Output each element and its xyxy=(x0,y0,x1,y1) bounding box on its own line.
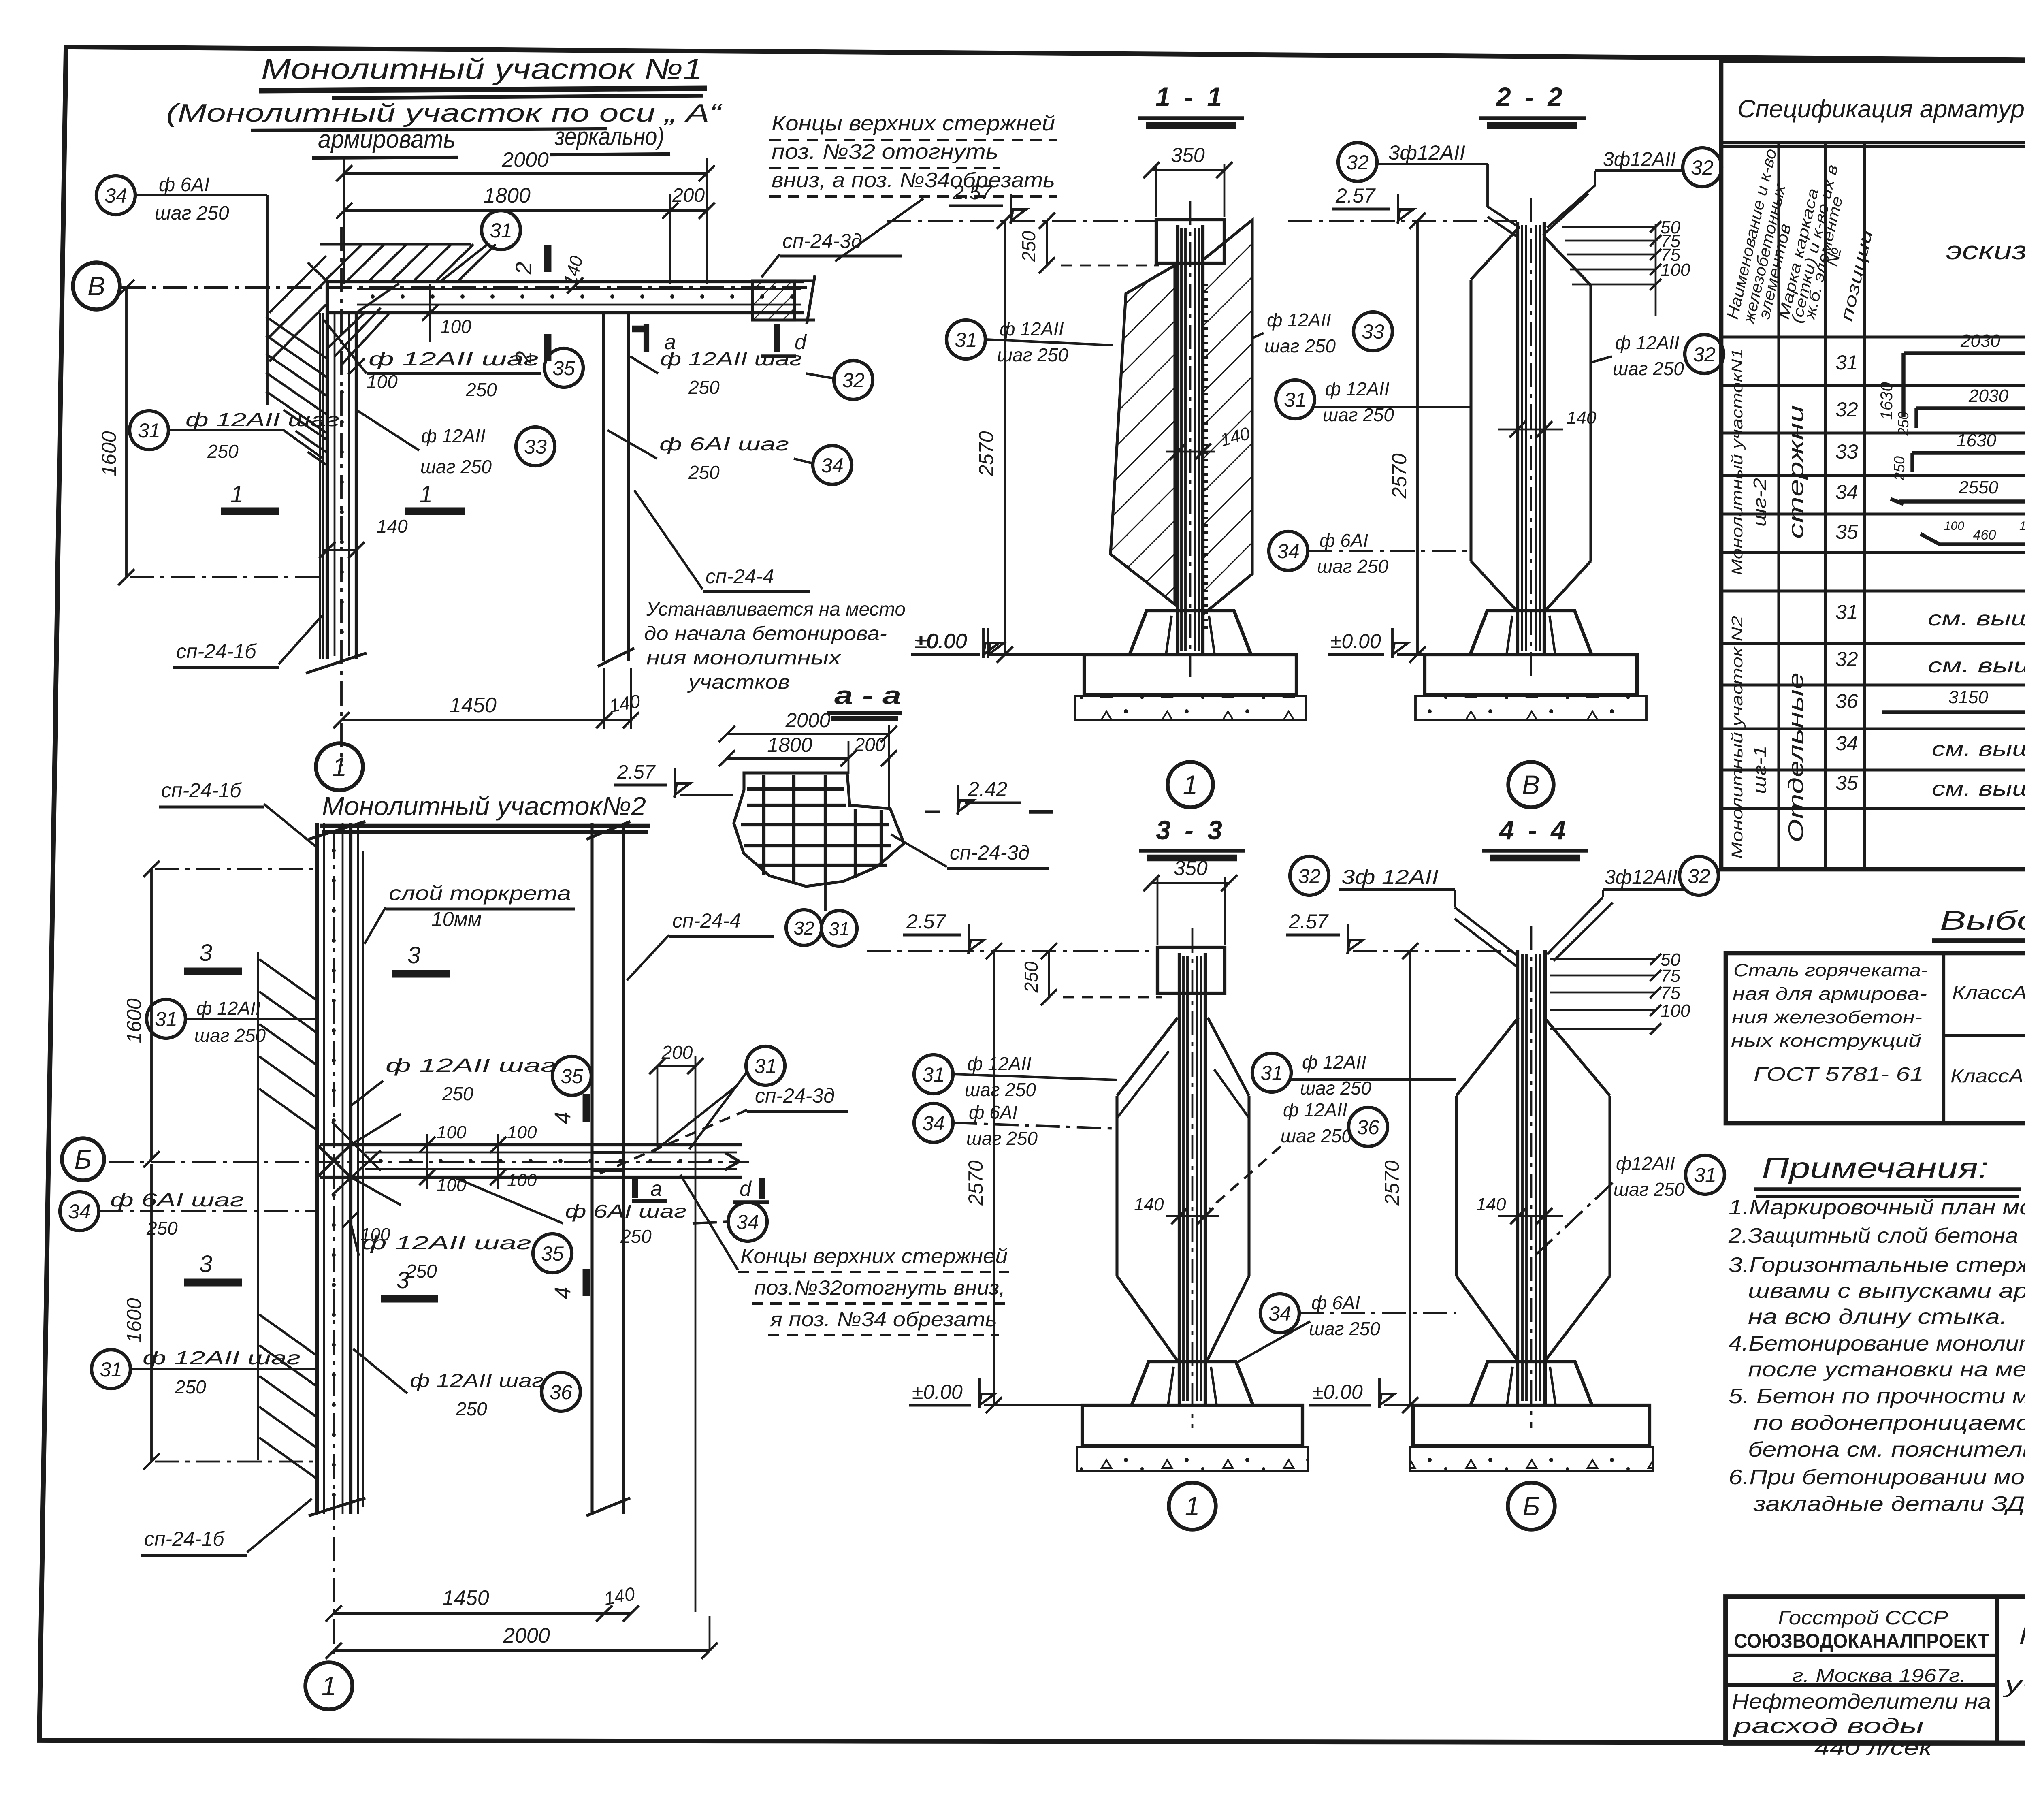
svg-text:1: 1 xyxy=(230,481,243,508)
svg-text:100: 100 xyxy=(2019,519,2025,533)
svg-text:100: 100 xyxy=(360,1225,390,1244)
foundation block xyxy=(1132,1362,1253,1405)
wall column in section xyxy=(1516,950,1519,1404)
svg-text:31: 31 xyxy=(155,1008,177,1031)
dim 140 sec3-3 xyxy=(1166,1215,1219,1217)
svg-text:350: 350 xyxy=(1174,857,1208,879)
svg-text:34: 34 xyxy=(104,184,127,207)
svg-text:см. выше: см. выше xyxy=(1932,777,2025,800)
svg-text:2000: 2000 xyxy=(503,1624,550,1647)
foundation block xyxy=(1130,611,1251,655)
end hatched block sp-24-3d plan1 xyxy=(752,281,795,320)
svg-text:1600: 1600 xyxy=(98,431,120,476)
svg-text:шаг 250: шаг 250 xyxy=(1613,358,1684,379)
dim 2000 plan1 xyxy=(344,172,707,175)
svg-text:шаг 250: шаг 250 xyxy=(966,1128,1038,1149)
svg-text:1: 1 xyxy=(332,752,347,782)
svg-text:4: 4 xyxy=(550,1287,575,1299)
svg-text:до начала бетонирова-: до начала бетонирова- xyxy=(644,623,887,644)
svg-text:140: 140 xyxy=(1476,1195,1506,1214)
callout 31 sec3-3 left xyxy=(914,1055,953,1094)
svg-text:2 - 2: 2 - 2 xyxy=(1495,82,1566,112)
svg-text:поз.№32отогнуть вниз,: поз.№32отогнуть вниз, xyxy=(754,1276,1005,1299)
svg-text:2.42: 2.42 xyxy=(968,778,1008,800)
svg-text:Госстрой СССР: Госстрой СССР xyxy=(1778,1607,1948,1629)
svg-text:ф 12АII: ф 12АII xyxy=(967,1053,1032,1074)
svg-text:2.Защитный слой бетона для арм: 2.Защитный слой бетона для арматуры прин… xyxy=(1728,1224,2025,1248)
svg-text:32: 32 xyxy=(842,369,865,392)
svg-text:ф 12АII шаг: ф 12АII шаг xyxy=(660,348,802,369)
svg-text:Б: Б xyxy=(75,1144,92,1174)
svg-text:эскиз: эскиз xyxy=(1946,237,2025,265)
dim 140 sec2-2 xyxy=(1498,429,1563,431)
svg-text:шаг 250: шаг 250 xyxy=(1264,335,1336,356)
svg-text:1.Маркировочный план монолит: 1.Маркировочный план монолитных участков… xyxy=(1729,1196,2025,1219)
svg-text:±0.00: ±0.00 xyxy=(912,1380,963,1403)
svg-text:4.Бетонирование монолитных уч: 4.Бетонирование монолитных участков стен… xyxy=(1729,1332,2025,1355)
svg-text:Монолитный участок№2: Монолитный участок№2 xyxy=(322,792,646,821)
callout 34 sec3-3 left xyxy=(914,1103,953,1142)
callout 35 plan2 upper xyxy=(552,1056,591,1095)
plan2 hatched panels xyxy=(259,959,317,1001)
callout 34 plan1 right xyxy=(813,446,852,484)
svg-text:ф 12АII: ф 12АII xyxy=(421,425,486,446)
svg-text:см. выше: см. выше xyxy=(1932,738,2025,760)
svg-text:±0.00: ±0.00 xyxy=(1330,630,1381,653)
svg-text:35: 35 xyxy=(561,1065,583,1088)
svg-text:по водонепроницаемости В-6.: по водонепроницаемости В-6. Указания по … xyxy=(1754,1411,2025,1435)
svg-text:31: 31 xyxy=(955,329,977,351)
svg-text:31: 31 xyxy=(922,1063,945,1086)
shotcrete dotted liner sec1-1 xyxy=(1204,284,1208,632)
svg-text:31: 31 xyxy=(490,219,512,242)
dim 2570 sec1-1 xyxy=(1004,221,1006,655)
svg-text:140: 140 xyxy=(377,516,408,537)
svg-text:ГОСТ 5781- 61: ГОСТ 5781- 61 xyxy=(1754,1064,1924,1085)
svg-text:ф 12АII шаг: ф 12АII шаг xyxy=(369,348,539,369)
svg-text:сп-24-4: сп-24-4 xyxy=(706,565,774,588)
svg-text:250: 250 xyxy=(688,462,720,483)
concrete prep strip xyxy=(1077,1447,1308,1471)
svg-text:ф 12АII: ф 12АII xyxy=(1615,332,1680,353)
dims 1600 plan2 xyxy=(150,869,153,1159)
svg-text:250: 250 xyxy=(175,1376,206,1398)
svg-text:1450: 1450 xyxy=(442,1586,489,1610)
callout 36 plan2 xyxy=(541,1372,580,1411)
callout 34 plan1 top-left xyxy=(96,176,135,215)
svg-text:ф 12АII: ф 12АII xyxy=(1283,1099,1347,1120)
svg-text:100: 100 xyxy=(437,1175,467,1195)
svg-text:ф 12АII: ф 12АII xyxy=(1267,309,1331,331)
svg-text:поз. №32 отогнуть: поз. №32 отогнуть xyxy=(772,140,998,164)
svg-text:1800: 1800 xyxy=(767,734,812,756)
callout 31 plan2 left lower xyxy=(92,1350,130,1389)
hatched precast panel sp-24-1b plan1 (left of wall) xyxy=(266,317,326,358)
svg-text:35: 35 xyxy=(541,1242,564,1265)
svg-text:33: 33 xyxy=(524,435,547,458)
svg-text:2: 2 xyxy=(511,262,536,275)
svg-text:31: 31 xyxy=(754,1055,777,1077)
wall column in section xyxy=(1178,953,1181,1404)
svg-text:34: 34 xyxy=(1835,481,1858,504)
svg-text:шг-2: шг-2 xyxy=(1750,478,1770,527)
svg-text:сп-24-3д: сп-24-3д xyxy=(755,1084,835,1107)
callout 31 plan1 left xyxy=(130,411,168,450)
axis circle B(Б) sec4-4 xyxy=(1508,1483,1555,1530)
dim 250 sec1-1 xyxy=(1046,221,1048,265)
panel hexagon sec3-3 xyxy=(1115,1096,1118,1276)
svg-text:100: 100 xyxy=(440,316,471,337)
concrete prep strip xyxy=(1415,696,1646,720)
svg-text:33: 33 xyxy=(1362,320,1384,343)
precast panel sp-24-4 strip plan1 xyxy=(602,313,605,661)
dim 250 sec3-3 xyxy=(1048,951,1050,997)
callout 31 plan2 right xyxy=(746,1046,785,1085)
svg-text:34: 34 xyxy=(68,1200,91,1223)
callout 32 plan1 right xyxy=(834,361,873,399)
svg-text:Монолитные: Монолитные xyxy=(2019,1623,2025,1649)
column centerline xyxy=(1189,201,1192,677)
svg-text:250: 250 xyxy=(1021,961,1042,993)
svg-text:1600: 1600 xyxy=(123,1298,145,1343)
svg-text:2.57: 2.57 xyxy=(906,910,947,933)
callout 31 sec4-4 right xyxy=(1686,1155,1724,1194)
right hatched panel sec1-1 xyxy=(1203,220,1252,614)
svg-text:100: 100 xyxy=(507,1170,537,1190)
svg-text:36: 36 xyxy=(1835,690,1858,713)
svg-text:сп-24-4: сп-24-4 xyxy=(672,909,741,932)
spacing dims 50/75/75/100 sec2-2 xyxy=(1655,224,1657,316)
table row lines xyxy=(1721,335,2025,338)
svg-text:36: 36 xyxy=(550,1381,572,1404)
svg-text:а: а xyxy=(650,1177,662,1201)
svg-text:шаг 250: шаг 250 xyxy=(194,1025,266,1046)
svg-text:шг-1: шг-1 xyxy=(1750,745,1770,794)
svg-text:СОЮЗВОДОКАНАЛПРОЕКТ: СОЮЗВОДОКАНАЛПРОЕКТ xyxy=(1734,1630,1989,1652)
svg-text:1800: 1800 xyxy=(484,184,531,207)
svg-text:140: 140 xyxy=(1134,1195,1164,1214)
svg-text:1600: 1600 xyxy=(123,998,145,1043)
svg-text:±0.00: ±0.00 xyxy=(916,630,967,653)
svg-text:3ф12АII: 3ф12АII xyxy=(1388,141,1465,164)
callout 31 plan2 topleft xyxy=(147,999,185,1038)
svg-text:ф 12АII: ф 12АII xyxy=(1302,1052,1366,1073)
dim 1600 plan1 xyxy=(125,288,128,577)
svg-text:1: 1 xyxy=(420,481,433,508)
svg-text:34: 34 xyxy=(1268,1302,1291,1325)
plan1 vertical wall bottom break xyxy=(306,653,367,673)
svg-text:ф 12АII: ф 12АII xyxy=(1325,378,1390,399)
svg-text:закладные детали ЗД-1 по ли: закладные детали ЗД-1 по листу АС-5. xyxy=(1753,1492,2025,1516)
svg-text:Выборка арматуры: Выборка арматуры xyxy=(1940,905,2025,935)
bent bars funnel sec4-4 xyxy=(1454,890,1456,907)
svg-text:сп-24-3д: сп-24-3д xyxy=(950,841,1030,864)
svg-text:250: 250 xyxy=(465,379,497,400)
panel hexagon sec2-2 xyxy=(1469,280,1472,561)
dim 350 sec1-1 xyxy=(1151,169,1224,171)
svg-text:31: 31 xyxy=(1284,388,1307,411)
svg-text:Концы верхних стержней: Концы верхних стержней xyxy=(740,1245,1008,1267)
table column lines xyxy=(1777,143,1780,869)
axis circle 1 sec3-3 xyxy=(1169,1483,1216,1530)
column rebar lines xyxy=(1180,228,1183,651)
svg-text:ф 6АI: ф 6АI xyxy=(1311,1292,1360,1313)
plan view 1: corner wall xyxy=(327,280,804,283)
svg-text:200: 200 xyxy=(854,734,886,755)
spacing dims sec4-4 xyxy=(1550,958,1656,960)
dim 140 sec1-1 xyxy=(1166,451,1215,453)
panel hexagon sec4-4 xyxy=(1455,1096,1458,1276)
dim 140 sec4-4 xyxy=(1498,1215,1563,1217)
svg-text:шаг 250: шаг 250 xyxy=(155,203,229,224)
svg-text:см. выше: см. выше xyxy=(1928,607,2025,630)
svg-text:250: 250 xyxy=(688,377,720,398)
dim 1450/140 plan1 bottom xyxy=(341,719,604,721)
svg-text:Монолитный участок №1: Монолитный участок №1 xyxy=(261,53,703,85)
svg-text:В: В xyxy=(1522,770,1540,800)
callout 31 sec1-1 left xyxy=(946,320,985,359)
callouts 32 31 under a-a xyxy=(786,910,822,945)
svg-text:100: 100 xyxy=(507,1122,537,1142)
svg-text:шаг 250: шаг 250 xyxy=(1614,1179,1685,1200)
svg-text:Спецификация арматуры н'а о: Спецификация арматуры н'а один элемент xyxy=(1737,95,2025,123)
svg-text:3ф 12АII: 3ф 12АII xyxy=(1341,866,1439,888)
callout 34 plan2 right xyxy=(728,1202,767,1241)
svg-text:32: 32 xyxy=(1835,648,1858,670)
svg-text:сп-24-1б: сп-24-1б xyxy=(144,1528,225,1550)
dim 2570 sec3-3 xyxy=(993,951,995,1405)
svg-text:31: 31 xyxy=(829,918,849,939)
wall column in section xyxy=(1516,222,1519,653)
hatched panel strip along top wall plan1 xyxy=(320,243,471,245)
column rebar lines xyxy=(1521,954,1524,1401)
svg-text:ф 12АII шаг: ф 12АII шаг xyxy=(386,1055,556,1076)
svg-text:250: 250 xyxy=(1018,230,1039,262)
svg-text:участков: участков xyxy=(687,672,790,693)
callout 35 plan2 lower xyxy=(533,1234,572,1273)
svg-text:32: 32 xyxy=(1688,865,1710,888)
wall corner bend bars xyxy=(308,262,327,282)
svg-text:1630: 1630 xyxy=(1957,431,1996,450)
plan2 wall break marks xyxy=(309,821,365,839)
svg-text:34: 34 xyxy=(821,454,844,477)
svg-text:2570: 2570 xyxy=(1381,1160,1403,1206)
section a d marks plan2 xyxy=(632,1178,638,1198)
svg-text:100: 100 xyxy=(1660,1001,1690,1021)
svg-text:расход воды: расход воды xyxy=(1732,1714,1924,1738)
svg-text:Концы верхних стержней: Концы верхних стержней xyxy=(772,112,1055,135)
wall column in section xyxy=(1176,225,1179,653)
svg-text:шаг 250: шаг 250 xyxy=(420,456,492,477)
cap block sec1-1 xyxy=(1156,220,1224,263)
dim 2570 sec2-2 xyxy=(1416,221,1419,655)
callout 34 mid (lower) xyxy=(1260,1294,1299,1333)
svg-text:ф 6АI шаг: ф 6АI шаг xyxy=(659,433,789,454)
svg-text:460: 460 xyxy=(1973,527,1996,543)
callout 33 sec1-1 right xyxy=(1354,312,1392,351)
svg-text:Монолитный участок N2: Монолитный участок N2 xyxy=(1729,616,1746,859)
svg-text:34: 34 xyxy=(1277,540,1300,563)
svg-text:3 - 3: 3 - 3 xyxy=(1156,815,1226,845)
axis B line and circle xyxy=(122,286,814,289)
callout 32 sec2-2 right xyxy=(1685,335,1724,373)
column centerline xyxy=(1192,928,1194,1428)
plan2 sp-24-4 right strip with joint xyxy=(590,823,593,1514)
svg-text:1: 1 xyxy=(1185,1491,1200,1521)
dim 200 plan2 xyxy=(657,1065,695,1067)
axis 1 line and circle (plan1) xyxy=(340,227,343,766)
axis 1 line circle plan2 xyxy=(333,834,335,1663)
column centerline xyxy=(1530,926,1533,1428)
svg-text:75: 75 xyxy=(1660,983,1680,1003)
svg-text:3ф12АII: 3ф12АII xyxy=(1605,866,1678,888)
svg-text:ф 6АI: ф 6АI xyxy=(159,174,209,196)
table outer and title row xyxy=(1721,61,2025,869)
svg-text:ф 6АI: ф 6АI xyxy=(969,1102,1017,1123)
svg-text:31: 31 xyxy=(1835,351,1858,374)
left hatched panel sec1-1 xyxy=(1111,265,1175,604)
svg-text:100: 100 xyxy=(437,1122,467,1142)
svg-text:32: 32 xyxy=(1835,398,1858,421)
column centerline xyxy=(1530,198,1532,677)
svg-text:140: 140 xyxy=(1567,408,1597,428)
svg-text:ф 12АII шаг: ф 12АII шаг xyxy=(410,1370,544,1391)
axis circle B sec2-2 xyxy=(1508,762,1554,807)
svg-text:32: 32 xyxy=(1346,151,1369,174)
column rebar lines xyxy=(1182,956,1185,1401)
svg-text:100: 100 xyxy=(1660,260,1690,280)
svg-text:участки стен: участки стен xyxy=(2002,1671,2025,1698)
svg-text:ф 6АI: ф 6АI xyxy=(1319,530,1368,551)
callout 34 plan2 left xyxy=(60,1192,99,1231)
svg-text:2570: 2570 xyxy=(1388,453,1411,499)
svg-text:4: 4 xyxy=(550,1112,575,1124)
svg-text:3150: 3150 xyxy=(1948,687,1988,707)
svg-text:бетона см. пояснительную за: бетона см. пояснительную записку. xyxy=(1748,1438,2025,1462)
svg-text:34: 34 xyxy=(922,1112,945,1135)
svg-text:слой торкрета: слой торкрета xyxy=(389,882,571,905)
mesh sheet blob a-a xyxy=(734,773,904,886)
plan2 wall right end arrow xyxy=(725,1153,740,1161)
svg-text:ф 12АII: ф 12АII xyxy=(196,998,261,1019)
svg-text:шаг 250: шаг 250 xyxy=(1317,556,1388,577)
svg-text:Нефтеотделители на: Нефтеотделители на xyxy=(1732,1690,1991,1713)
svg-text:d: d xyxy=(740,1177,752,1201)
svg-text:200: 200 xyxy=(672,185,705,206)
cap block sec3-3 xyxy=(1157,947,1225,993)
svg-text:ная для армирова-: ная для армирова- xyxy=(1733,984,1927,1004)
svg-text:Сталь горячеката-: Сталь горячеката- xyxy=(1733,960,1928,980)
svg-text:10мм: 10мм xyxy=(431,908,482,930)
svg-text:2.57: 2.57 xyxy=(1335,184,1376,207)
svg-text:я поз. №34 обрезать: я поз. №34 обрезать xyxy=(769,1308,997,1331)
svg-text:6.При бетонировании монолитны: 6.При бетонировании монолитных участков … xyxy=(1729,1466,2025,1489)
callout 36 mid xyxy=(1349,1107,1388,1146)
svg-text:В: В xyxy=(87,271,105,301)
svg-text:34: 34 xyxy=(736,1211,759,1233)
svg-text:2550: 2550 xyxy=(1958,478,1998,497)
foundation block xyxy=(1470,611,1592,655)
svg-text:а - а: а - а xyxy=(834,682,901,710)
svg-text:3.Горизонтальные стержни сва: 3.Горизонтальные стержни сварить односто… xyxy=(1729,1253,2025,1277)
svg-text:ния железобетон-: ния железобетон- xyxy=(1732,1007,1922,1027)
callout 31 mid (to 4-4) xyxy=(1252,1053,1291,1092)
svg-text:сп-24-3д: сп-24-3д xyxy=(782,230,862,252)
svg-text:4 - 4: 4 - 4 xyxy=(1498,815,1569,845)
plan2 horizontal wall xyxy=(320,1143,742,1146)
svg-text:армировать: армировать xyxy=(318,126,456,154)
svg-text:200: 200 xyxy=(661,1042,693,1063)
svg-text:г. Москва 1967г.: г. Москва 1967г. xyxy=(1792,1665,1966,1686)
svg-text:1 - 1: 1 - 1 xyxy=(1155,82,1225,112)
column rebar lines xyxy=(1521,225,1523,651)
svg-text:34: 34 xyxy=(1835,732,1858,755)
svg-text:1450: 1450 xyxy=(450,693,497,717)
svg-text:шаг 250: шаг 250 xyxy=(997,344,1068,365)
callout 34 mid (to 2-2) xyxy=(1269,531,1308,570)
dim 1800/200 a-a xyxy=(727,757,848,760)
section a marks plan1 xyxy=(644,324,649,352)
svg-text:250: 250 xyxy=(620,1226,652,1247)
axis B(Б) line and circle xyxy=(109,1161,749,1163)
svg-text:КлассАII: КлассАII xyxy=(1950,1065,2025,1086)
svg-text:350: 350 xyxy=(1171,144,1205,166)
svg-text:2000: 2000 xyxy=(501,148,549,172)
svg-text:35: 35 xyxy=(1835,772,1858,794)
svg-text:250: 250 xyxy=(207,441,239,462)
svg-text:31: 31 xyxy=(100,1358,122,1381)
dim 1800/200 plan1 xyxy=(344,209,670,212)
svg-text:100: 100 xyxy=(1944,519,1964,533)
svg-text:2.57: 2.57 xyxy=(952,181,993,204)
plan2 tee joint cross bars xyxy=(317,1145,351,1177)
callout 35 plan1 xyxy=(544,348,583,387)
svg-text:швами с выпусками арматуры и: швами с выпусками арматуры из стеновых п… xyxy=(1748,1279,2025,1303)
svg-text:250: 250 xyxy=(456,1398,487,1419)
section cut 4 marks plan2 xyxy=(583,1094,590,1122)
svg-text:Устанавливается на место: Устанавливается на место xyxy=(646,599,906,620)
section cut 2 marks plan1 xyxy=(544,245,552,272)
svg-text:на всю длину стыка.: на всю длину стыка. xyxy=(1748,1305,2007,1329)
svg-text:ф 12АII шаг: ф 12АII шаг xyxy=(185,409,339,430)
svg-text:2.57: 2.57 xyxy=(1288,910,1329,933)
svg-text:31: 31 xyxy=(1260,1062,1283,1084)
svg-text:250: 250 xyxy=(1891,456,1908,481)
svg-text:33: 33 xyxy=(1835,440,1858,463)
svg-text:35: 35 xyxy=(552,357,575,380)
plan2 vertical wall xyxy=(315,823,319,1514)
svg-text:Отдельные: Отдельные xyxy=(1784,672,1808,843)
svg-text:ф 12АII: ф 12АII xyxy=(1000,318,1064,339)
svg-text:ф 6АI шаг: ф 6АI шаг xyxy=(110,1189,244,1210)
dim 2000 a-a xyxy=(727,733,889,735)
svg-text:вниз, а поз. №34обрезать: вниз, а поз. №34обрезать xyxy=(772,169,1055,192)
svg-text:2.57: 2.57 xyxy=(617,762,656,783)
shotcrete liner plan1 xyxy=(319,313,321,659)
svg-text:3: 3 xyxy=(199,1251,212,1277)
callout 31 plan1 top xyxy=(482,211,520,250)
svg-text:КлассАI: КлассАI xyxy=(1952,982,2025,1003)
dim 1450/140 plan2 xyxy=(334,1612,604,1615)
svg-text:5. Бетон по прочности марки: 5. Бетон по прочности марки 200, по моро… xyxy=(1729,1385,2025,1408)
svg-text:сп-24-1б: сп-24-1б xyxy=(176,640,257,663)
svg-text:250: 250 xyxy=(146,1218,178,1239)
svg-text:ния монолитных: ния монолитных xyxy=(646,647,842,669)
svg-text:35: 35 xyxy=(1835,521,1858,543)
svg-text:см. выше: см. выше xyxy=(1928,654,2025,677)
svg-text:32: 32 xyxy=(1298,865,1321,888)
bent bars funnel sec2-2 xyxy=(1486,164,1489,207)
